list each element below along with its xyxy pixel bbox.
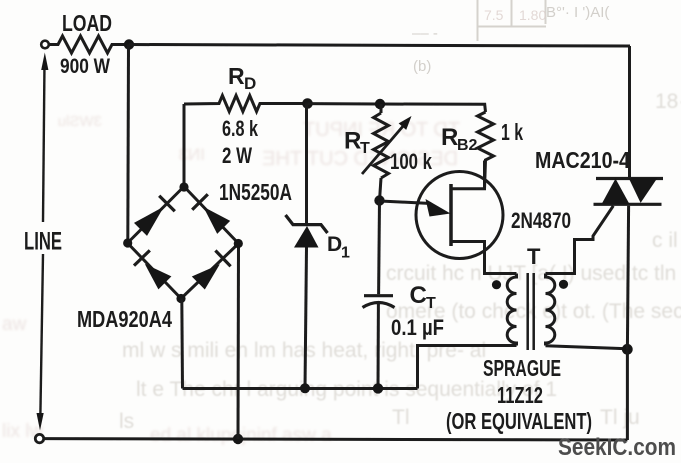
wire negative rail [183,387,418,390]
svg-text:T: T [527,244,541,269]
svg-text:7.5: 7.5 [484,7,504,23]
svg-text:aw: aw [2,314,27,335]
triac MAC210-4 [628,46,631,177]
svg-text:T: T [360,140,370,157]
node A top junction [124,39,134,49]
resistor RD 6.8k 2W [184,96,308,112]
wire top rail [129,45,630,47]
node bottom junction [233,434,243,444]
svg-text:B°'· I ')AI(: B°'· I ')AI( [546,4,609,21]
node bridge right vertex [234,239,243,248]
bridge rectifier MDA920A4 [128,187,239,299]
svg-text:(OR EQUIVALENT): (OR EQUIVALENT) [446,408,592,434]
capacitor CT 0.1uF [377,201,381,295]
svg-text:2 W: 2 W [222,143,252,168]
svg-text:D: D [244,74,256,93]
LINE dimension arrow up [43,62,45,222]
svg-text:c il: c il [652,229,678,252]
svg-text:MAC210-4: MAC210-4 [535,147,630,173]
svg-text:1: 1 [341,245,350,262]
wire secondary bottom to right rail [546,346,628,349]
LINE dimension arrow down [40,254,43,420]
node D1 bottom [300,383,310,393]
svg-text:MDA920A4: MDA920A4 [77,306,172,332]
wire bridge right vertex to bottom rail [237,244,241,440]
node right rail junction [622,344,633,355]
Q1 base1 lead [451,242,517,274]
svg-text:C: C [410,282,427,309]
svg-text:1.80: 1.80 [519,7,546,23]
svg-text:D: D [327,233,342,256]
zener diode D1 1N5250A [305,104,308,225]
wire bottom rail [44,439,627,440]
svg-text:R: R [441,124,458,151]
node bridge left vertex [123,238,132,247]
svg-text:LINE: LINE [24,228,62,256]
transformer core [526,273,529,350]
svg-text:6.8 k: 6.8 k [222,116,259,141]
svg-text:Tl: Tl [392,406,410,429]
svg-text:11Z12: 11Z12 [497,382,543,408]
svg-text:(b): (b) [413,58,431,75]
transformer T secondary winding [546,274,555,346]
bridge diode D-TR (right to top) [203,207,230,234]
svg-text:100 k: 100 k [390,149,433,174]
node RT bottom / emitter [374,195,384,205]
svg-text:0.1 µF: 0.1 µF [391,315,444,340]
svg-text:Tl ju: Tl ju [600,406,640,429]
bridge diode D-BL (bottom to left) [145,264,172,290]
bridge diode D-TL (left to top) [134,207,164,236]
svg-text:1N5250A: 1N5250A [219,179,292,205]
node bridge bottom vertex [176,294,185,303]
Q1 base2 lead [451,161,485,189]
potentiometer RT 100k [374,113,389,178]
wire top distribution rail [308,104,486,112]
svg-text:R: R [344,128,361,155]
terminal bottom-left line input [35,434,43,442]
node RT top [375,99,385,109]
svg-text:R: R [228,63,245,89]
transformer primary dot [492,280,501,289]
svg-text:18·: 18· [655,90,681,113]
svg-text:2N4870: 2N4870 [511,208,571,233]
resistor LOAD 900W [49,36,129,53]
svg-text:1 k: 1 k [501,119,523,145]
svg-text:–– -: –– - [412,25,438,42]
svg-text:900 W: 900 W [60,55,110,78]
resistor RB2 1k [478,112,494,189]
unijunction transistor Q1 2N4870 [416,172,503,259]
svg-text:SeekIC.com: SeekIC.com [558,434,676,461]
wire secondary top to triac gate [546,206,614,274]
node CT bottom [373,383,383,393]
wire left drop to bridge [126,45,130,244]
svg-text:ls: ls [119,410,134,433]
node bridge top vertex [179,182,188,191]
node RD right / D1 top [302,98,313,109]
svg-text:LOAD: LOAD [62,10,112,36]
Q1 emitter wire from RT [380,201,431,204]
background bleed-through ghost text [119,90,681,433]
svg-text:SPRAGUE: SPRAGUE [483,355,561,381]
svg-text:B2: B2 [457,137,478,154]
transformer T primary winding [507,274,516,346]
terminal top-left line input [41,41,49,49]
wire bridge top vertex to RD [183,104,186,187]
bridge diode D-BR (bottom to right) [192,264,220,289]
wire primary bottom to negative rail [418,346,517,389]
wire bridge bottom to negative rail [180,299,184,389]
transformer secondary dot [559,280,568,289]
svg-text:T: T [426,295,436,312]
svg-text:3WSlu: 3WSlu [58,113,102,130]
